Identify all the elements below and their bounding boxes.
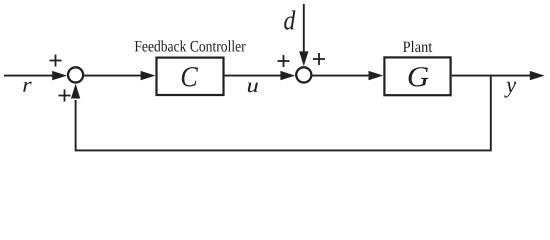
wire feedback bbox=[76, 76, 491, 151]
plus sign sum2 right bbox=[313, 53, 325, 65]
label u bbox=[248, 83, 258, 93]
plus sign sum1 lower bbox=[59, 90, 71, 102]
arrowhead d into sum2 bbox=[299, 51, 308, 66]
arrowhead into G bbox=[369, 71, 384, 80]
label C bbox=[182, 67, 198, 86]
label d bbox=[284, 10, 295, 29]
arrowhead into C bbox=[141, 71, 156, 80]
block C bbox=[157, 58, 224, 95]
arrowhead output bbox=[530, 71, 545, 80]
summing junction sum2 bbox=[296, 67, 311, 82]
wire sum2 to G bbox=[312, 75, 369, 77]
wire C to sum2 bbox=[225, 75, 281, 77]
label Feedback Controller bbox=[135, 40, 246, 51]
plus sign sum1 upper bbox=[50, 55, 62, 67]
wire output y bbox=[452, 75, 531, 77]
arrowhead into sum1 bbox=[52, 71, 67, 80]
label r bbox=[23, 82, 32, 92]
label Plant bbox=[403, 41, 432, 52]
wire d input bbox=[303, 4, 305, 52]
summing junction sum1 bbox=[68, 67, 83, 82]
block G bbox=[384, 57, 450, 95]
label G bbox=[409, 67, 429, 86]
arrowhead feedback into sum1 bbox=[71, 84, 80, 99]
plus sign sum2 left bbox=[278, 55, 290, 67]
label y bbox=[504, 82, 516, 98]
wire input r bbox=[4, 75, 53, 77]
wire sum1 to C bbox=[84, 75, 141, 77]
arrowhead into sum2 bbox=[280, 71, 295, 80]
